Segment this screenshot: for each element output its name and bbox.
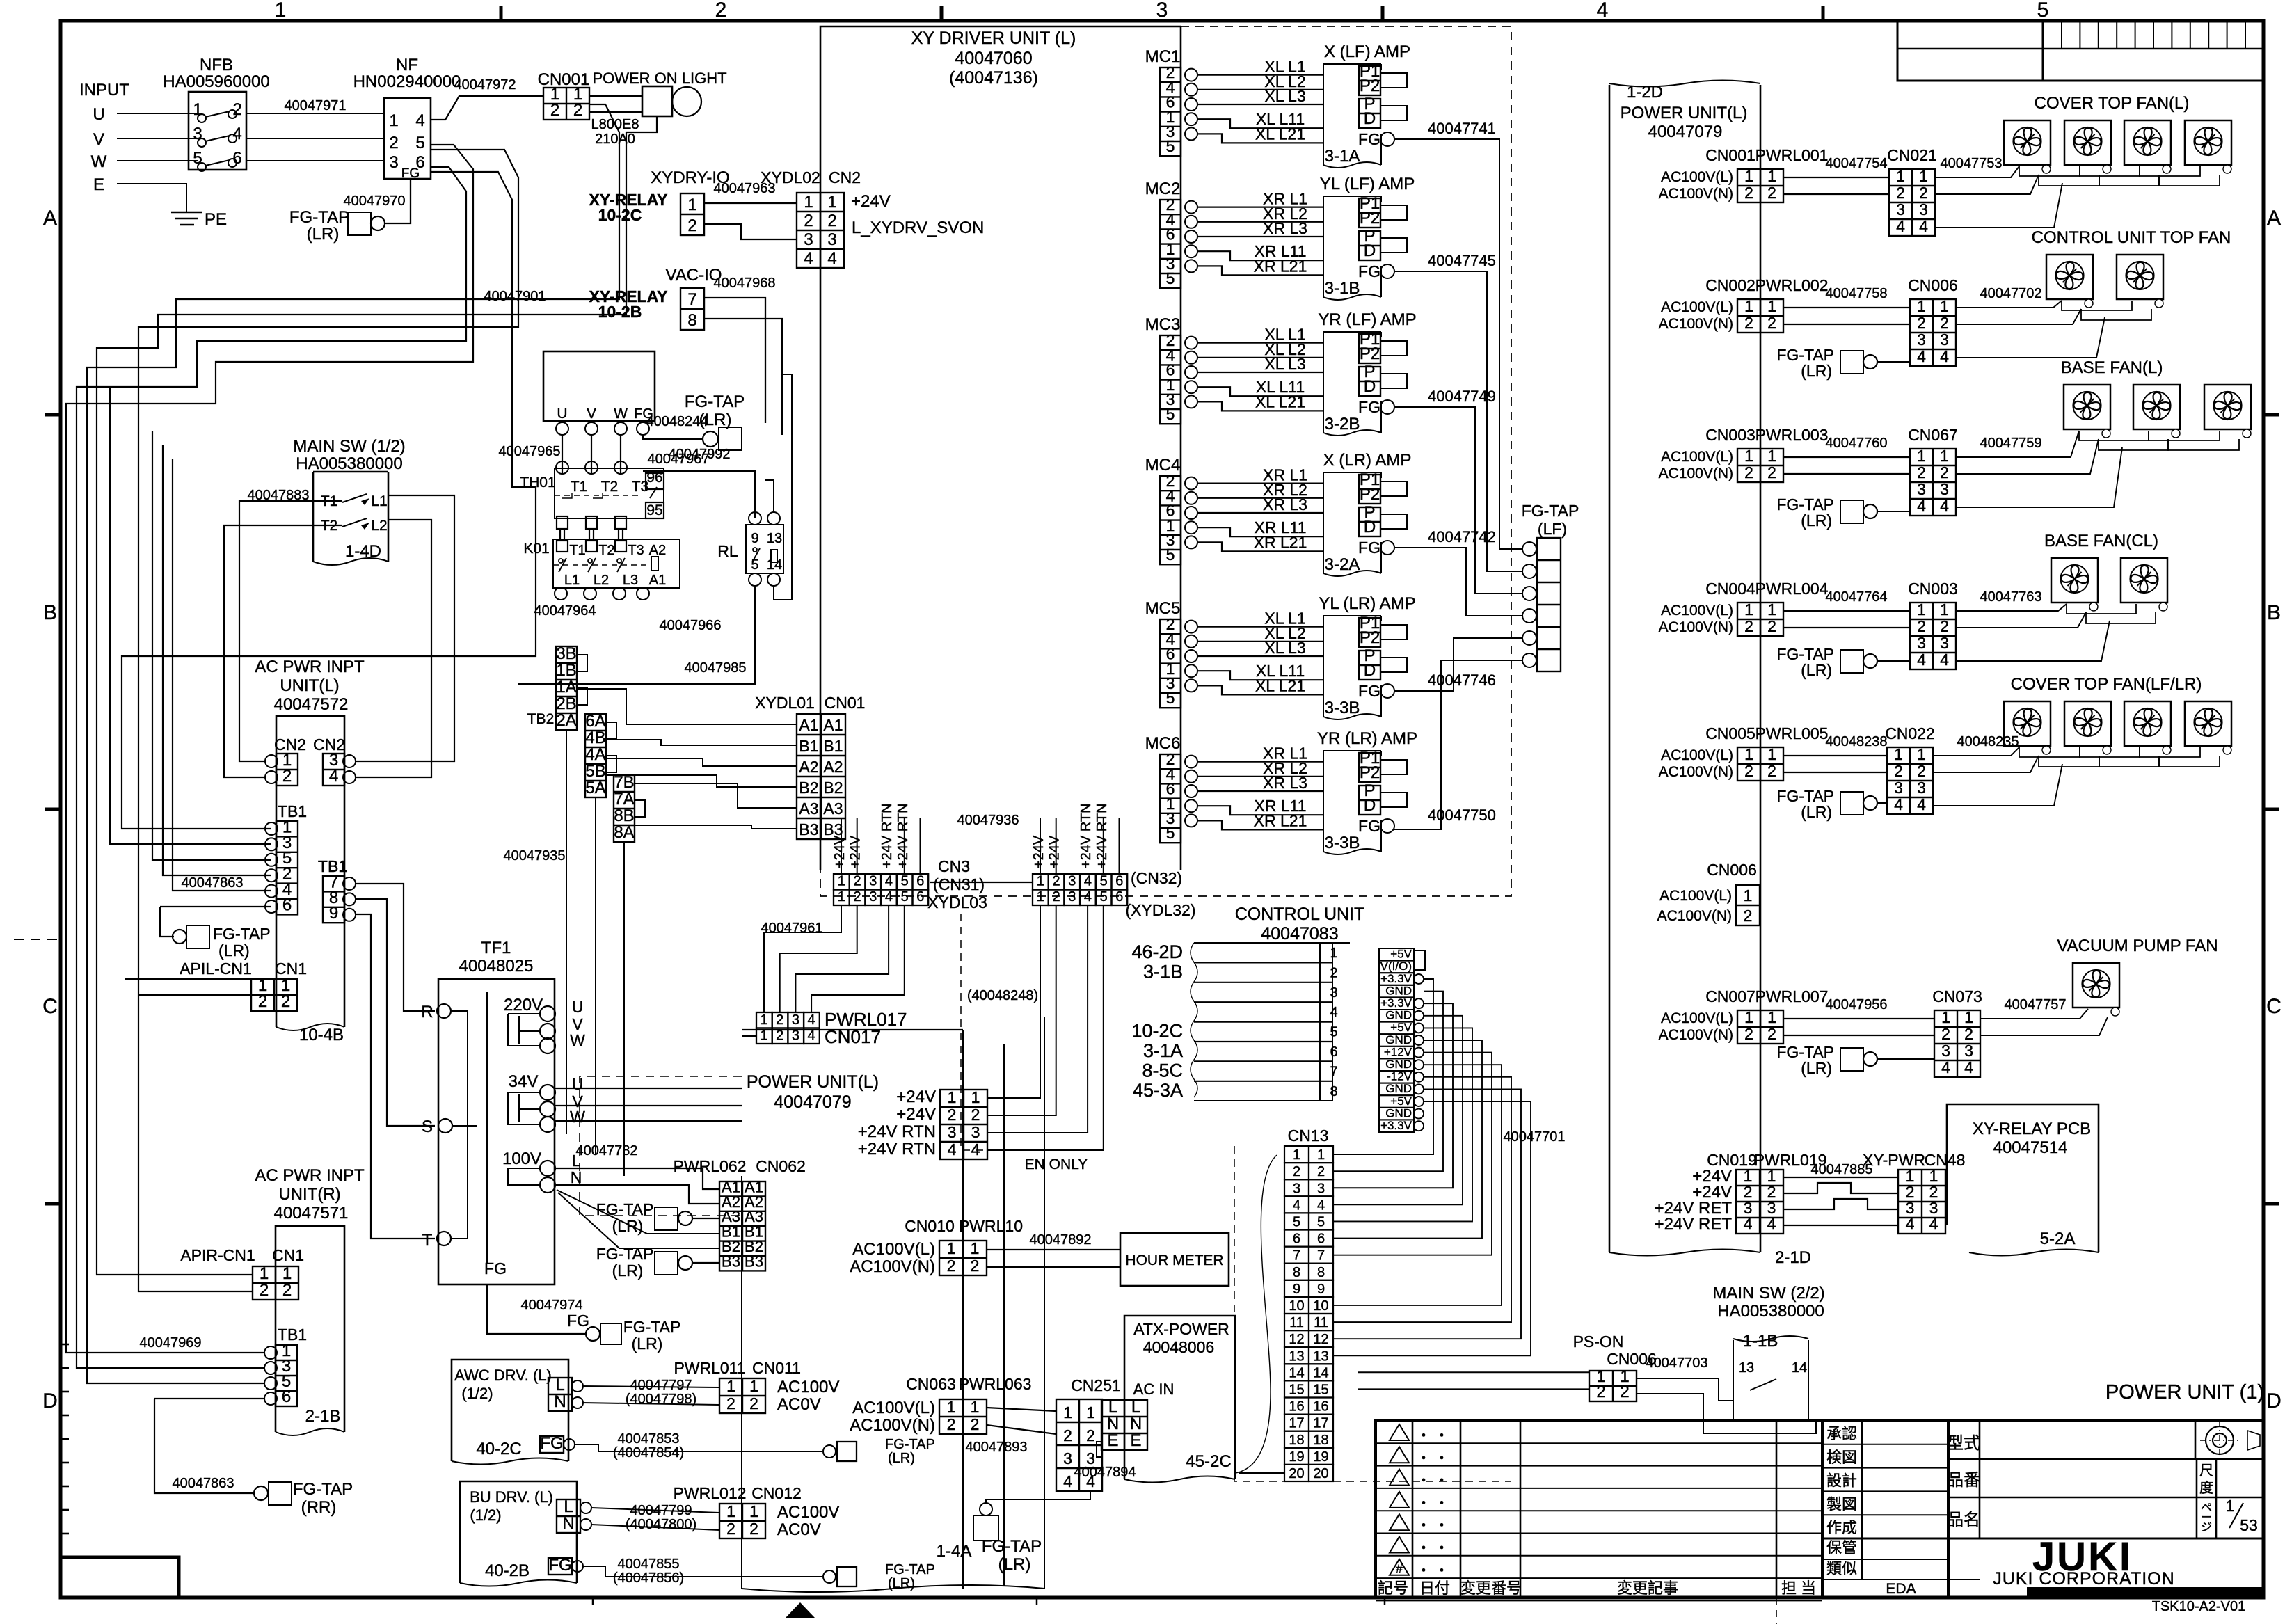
connector PWRL017/CN017 <box>756 1012 772 1028</box>
svg-text:6: 6 <box>1293 1232 1300 1247</box>
svg-text:1: 1 <box>1940 447 1949 465</box>
wire MC4 L1 <box>1197 482 1323 484</box>
svg-text:+12V: +12V <box>1384 1045 1412 1058</box>
svg-text:40047758: 40047758 <box>1826 286 1888 301</box>
wire fan feed 2 VACUUM PUMP FAN <box>1980 1017 2108 1035</box>
svg-text:10-2C: 10-2C <box>1131 1021 1183 1042</box>
wire CN019-3 jog <box>1783 1199 1898 1209</box>
svg-text:40047514: 40047514 <box>1993 1138 2068 1157</box>
fan COVER TOP FAN(L) #4 <box>2185 120 2231 165</box>
svg-text:C: C <box>2266 995 2282 1018</box>
wire XYDRY2 to XYDL02-3 <box>704 224 797 239</box>
wire NF4 to CN001-1 <box>431 96 543 120</box>
left border minor tick <box>61 1438 69 1440</box>
svg-text:承認: 承認 <box>1826 1425 1857 1442</box>
amp X (LF) AMP box <box>1323 64 1381 165</box>
svg-text:20: 20 <box>1313 1466 1328 1481</box>
wire RL to right <box>774 374 792 600</box>
connector PWRL012/CN012 <box>719 1504 765 1538</box>
left border minor tick <box>61 1391 69 1393</box>
wire TB2-5B to B2 <box>606 775 797 787</box>
left border minor tick <box>61 1367 69 1369</box>
svg-text:2: 2 <box>687 216 696 235</box>
svg-text:40047969: 40047969 <box>140 1335 202 1351</box>
svg-text:・: ・ <box>1435 1541 1449 1557</box>
connector CN022 <box>1887 747 1933 814</box>
svg-text:6A: 6A <box>585 712 605 731</box>
svg-text:40047079: 40047079 <box>774 1092 851 1112</box>
svg-text:UNIT(R): UNIT(R) <box>278 1185 340 1204</box>
svg-text:5: 5 <box>1166 824 1175 842</box>
wire fan feed 2 BASE FAN(L) <box>1956 439 2099 474</box>
fan COVER TOP FAN(LF/LR) #1 <box>2004 701 2051 746</box>
svg-text:2: 2 <box>1330 965 1337 980</box>
svg-text:MC1: MC1 <box>1145 47 1181 66</box>
fan daisy chain BASE FAN(L) <box>2079 431 2149 440</box>
svg-text:40047968: 40047968 <box>714 276 776 291</box>
svg-text:(LR): (LR) <box>888 1451 915 1466</box>
connector MC4 circles <box>1185 477 1197 490</box>
connector CN067 <box>1910 449 1956 516</box>
svg-text:PWRL001: PWRL001 <box>1755 146 1829 164</box>
svg-text:POWER UNIT(L): POWER UNIT(L) <box>747 1072 879 1092</box>
wire MC6 L21 <box>1197 820 1323 829</box>
svg-text:40047702: 40047702 <box>1980 286 2042 301</box>
svg-text:45-2C: 45-2C <box>1186 1452 1231 1471</box>
connector CN003 <box>1737 449 1783 482</box>
svg-text:19: 19 <box>1313 1449 1328 1465</box>
svg-text:(LF): (LF) <box>1538 520 1567 538</box>
svg-text:2: 2 <box>1896 184 1905 202</box>
wire MC6 L2 <box>1197 776 1323 777</box>
svg-text:V(I/O): V(I/O) <box>1380 960 1412 973</box>
svg-text:YR (LF) AMP: YR (LF) AMP <box>1318 310 1416 329</box>
svg-text:・: ・ <box>1435 1428 1449 1444</box>
zone tick top 4 <box>1822 6 1825 21</box>
wire 100V N to A2 <box>555 1185 719 1204</box>
svg-text:1: 1 <box>1917 297 1926 315</box>
revision strip box <box>1897 21 2263 81</box>
svg-text:L2: L2 <box>371 518 387 534</box>
svg-text:2A: 2A <box>556 711 576 730</box>
svg-text:1: 1 <box>1941 1008 1950 1026</box>
wire 34V W to unit <box>555 1120 742 1122</box>
wire CN001 row2 <box>1783 193 1889 195</box>
FG-TAP small 012 <box>837 1567 857 1586</box>
svg-text:FG-TAP: FG-TAP <box>596 1200 654 1218</box>
wire fgtap link VACUUM PUMP FAN <box>1877 1058 1934 1060</box>
svg-text:40047853: 40047853 <box>618 1431 680 1447</box>
svg-text:1: 1 <box>971 1088 980 1106</box>
svg-text:40047572: 40047572 <box>274 695 349 714</box>
wire CN063-CN251 2 <box>987 1425 1056 1434</box>
svg-text:3: 3 <box>1317 1181 1325 1196</box>
svg-text:13: 13 <box>767 531 782 546</box>
wire TB1-7 to TF R <box>356 884 435 1011</box>
svg-text:4: 4 <box>1917 795 1926 813</box>
svg-text:2: 2 <box>726 1394 735 1412</box>
wire TB2-2A down <box>566 730 567 1134</box>
MAIN SW 1-1B torn box <box>1733 1340 1808 1419</box>
svg-text:9: 9 <box>1317 1282 1325 1297</box>
FG-TAP square BASE FAN(L) <box>1840 500 1863 523</box>
svg-text:・: ・ <box>1417 1496 1431 1511</box>
svg-text:2: 2 <box>1964 1025 1973 1043</box>
wires into CN3/CN32 from driver unit <box>841 818 842 874</box>
svg-text:GND: GND <box>1385 1009 1412 1022</box>
FG-TAP LR atx square <box>973 1515 998 1541</box>
svg-text:1: 1 <box>1940 297 1949 315</box>
svg-text:1: 1 <box>2226 1497 2235 1515</box>
wire CN012-2 <box>591 1525 719 1530</box>
svg-text:40047750: 40047750 <box>1428 806 1496 824</box>
svg-text:U: U <box>93 105 104 124</box>
svg-text:2: 2 <box>1744 617 1753 635</box>
svg-text:N: N <box>562 1514 574 1533</box>
svg-text:4: 4 <box>1744 1215 1753 1233</box>
svg-text:AC100V(L): AC100V(L) <box>852 1240 935 1259</box>
TF1 winding core <box>486 992 488 1263</box>
wire MC5 L2 <box>1197 641 1323 642</box>
wire MC4 L11 <box>1197 527 1323 536</box>
svg-text:P2: P2 <box>1360 77 1380 95</box>
svg-text:4: 4 <box>1330 1005 1337 1020</box>
svg-text:3: 3 <box>389 153 398 172</box>
wire CN019-2 jog <box>1783 1183 1898 1193</box>
connector CN32/XYDL32 table <box>1033 874 1049 890</box>
fan COVER TOP FAN(L) #3 <box>2124 120 2171 165</box>
svg-text:(LR): (LR) <box>1801 803 1832 821</box>
amp YR (LR) AMP stub PD <box>1380 793 1407 807</box>
svg-text:MC2: MC2 <box>1145 180 1181 198</box>
svg-text:W: W <box>570 1031 585 1049</box>
TB2 jumper A1 <box>577 655 587 671</box>
svg-text:CN251: CN251 <box>1071 1376 1121 1394</box>
svg-text:40047764: 40047764 <box>1826 589 1888 605</box>
svg-text:2: 2 <box>1767 184 1776 202</box>
connector MC2 <box>1160 200 1181 288</box>
svg-text:PS-ON: PS-ON <box>1573 1332 1624 1351</box>
wire CN13-15b <box>1358 1388 1589 1390</box>
svg-text:2: 2 <box>1744 907 1753 925</box>
svg-text:B1: B1 <box>823 737 843 755</box>
svg-text:40047753: 40047753 <box>1941 156 2003 171</box>
svg-text:CN062: CN062 <box>756 1157 806 1175</box>
K01 box <box>553 539 680 588</box>
fan COVER TOP FAN(LF/LR) #3 <box>2124 701 2171 746</box>
svg-text:40047754: 40047754 <box>1826 156 1888 171</box>
svg-text:18: 18 <box>1289 1433 1304 1448</box>
svg-text:FG-TAP: FG-TAP <box>623 1318 681 1336</box>
connector MC2 circles <box>1185 201 1197 214</box>
svg-text:担 当: 担 当 <box>1781 1579 1816 1597</box>
BU DRV box <box>460 1481 577 1583</box>
svg-text:(LR): (LR) <box>1801 511 1832 530</box>
svg-text:40047763: 40047763 <box>1980 589 2042 605</box>
svg-text:9: 9 <box>1293 1282 1300 1297</box>
svg-text:6: 6 <box>282 895 292 914</box>
third angle projection symbol <box>2206 1426 2234 1454</box>
svg-text:4: 4 <box>804 249 813 268</box>
wire TB2-4B to B1 <box>606 740 797 745</box>
svg-text:8: 8 <box>1317 1265 1325 1280</box>
svg-text:XYDL02: XYDL02 <box>761 168 820 186</box>
svg-text:5: 5 <box>1166 405 1175 423</box>
svg-text:A2: A2 <box>649 543 666 558</box>
approval right divider <box>1947 1421 1950 1598</box>
svg-text:・: ・ <box>1435 1563 1449 1579</box>
amp YR (LR) AMP stub P1P2 <box>1380 760 1407 774</box>
svg-text:FG-TAP: FG-TAP <box>885 1437 935 1452</box>
wire FG MC4 to tap <box>1394 548 1522 616</box>
wire input V to NFB <box>117 138 198 139</box>
wire CN004 row1 <box>1783 610 1910 612</box>
svg-text:4: 4 <box>1896 217 1905 235</box>
svg-text:2: 2 <box>1744 463 1753 481</box>
connector CN002 <box>1737 299 1783 333</box>
CONTROL UNIT voltage pin cells <box>1379 948 1414 961</box>
svg-text:1: 1 <box>948 1088 957 1106</box>
svg-text:CN010: CN010 <box>905 1217 955 1235</box>
svg-text:10-2C: 10-2C <box>598 206 642 224</box>
svg-text:2: 2 <box>260 1281 269 1300</box>
svg-text:AC100V(N): AC100V(N) <box>1657 908 1732 924</box>
wire CN019-1 <box>1783 1177 1898 1178</box>
svg-text:(CN31): (CN31) <box>933 875 985 893</box>
svg-text:5: 5 <box>1166 137 1175 155</box>
svg-text:2: 2 <box>1293 1164 1300 1179</box>
svg-text:+24V: +24V <box>832 835 847 868</box>
CN13 dashed bottom <box>1333 1481 1511 1482</box>
wire CN32 pin down 2 <box>987 905 1056 1115</box>
fan CONTROL UNIT TOP FAN #1 <box>2046 255 2093 299</box>
wire CN001 row1 <box>1783 177 1889 178</box>
svg-text:4: 4 <box>415 111 424 130</box>
svg-text:INPUT: INPUT <box>79 81 129 99</box>
wire fgtap link COVER TOP FAN(LF/LR) <box>1877 802 1887 804</box>
fan daisy chain COVER TOP FAN(LF/LR) <box>2019 747 2080 757</box>
svg-text:CN2: CN2 <box>829 168 861 186</box>
svg-text:GND: GND <box>1385 1106 1412 1120</box>
svg-text:B: B <box>43 601 57 624</box>
svg-text:4: 4 <box>1917 497 1926 515</box>
connector ATX AC-IN <box>1101 1400 1147 1450</box>
svg-text:10: 10 <box>1313 1298 1328 1314</box>
svg-text:3: 3 <box>1917 480 1926 498</box>
svg-text:7: 7 <box>687 290 696 309</box>
svg-text:・: ・ <box>1435 1496 1449 1511</box>
amp X (LR) AMP stub PD <box>1380 514 1407 529</box>
svg-text:1: 1 <box>1037 874 1044 889</box>
K01 bottom circles <box>555 587 567 600</box>
svg-text:C: C <box>42 995 58 1018</box>
wire 40047967 to RL <box>643 471 755 518</box>
svg-text:4: 4 <box>1906 1215 1915 1233</box>
svg-text:PWRL007: PWRL007 <box>1755 987 1829 1005</box>
svg-text:40047745: 40047745 <box>1428 252 1496 269</box>
fan BASE FAN(CL) #1 <box>2051 558 2098 603</box>
AC PWR R TB1 <box>276 1345 297 1406</box>
svg-text:・: ・ <box>1435 1451 1449 1466</box>
connector PWRL011/CN011 <box>719 1378 765 1413</box>
svg-text:40047985: 40047985 <box>685 660 747 676</box>
wire bundle NF out 1 <box>66 145 473 1353</box>
revision table triangle symbols <box>1390 1424 1409 1440</box>
svg-text:・: ・ <box>1435 1518 1449 1534</box>
left border minor tick <box>61 1509 69 1511</box>
wire fan feed 4 COVER TOP FAN(L) <box>1935 183 2062 228</box>
bottom center dashed fold line <box>1776 1598 1777 1624</box>
svg-text:作成: 作成 <box>1826 1519 1857 1536</box>
svg-text:1-2D: 1-2D <box>1627 83 1663 102</box>
svg-text:POWER UNIT (1): POWER UNIT (1) <box>2105 1381 2264 1403</box>
svg-text:2: 2 <box>776 1012 783 1028</box>
svg-text:40047079: 40047079 <box>1648 122 1723 141</box>
svg-text:5-2A: 5-2A <box>2040 1229 2076 1248</box>
svg-text:XR L21: XR L21 <box>1254 533 1307 551</box>
svg-text:1: 1 <box>838 874 845 889</box>
svg-text:X (LF) AMP: X (LF) AMP <box>1324 42 1410 61</box>
svg-text:PWRL012: PWRL012 <box>674 1484 747 1502</box>
TB2 column C <box>614 775 635 842</box>
svg-text:7: 7 <box>1293 1248 1300 1264</box>
wire tapB3 <box>692 1262 719 1264</box>
svg-text:+24V RTN: +24V RTN <box>858 1140 936 1159</box>
svg-text:B1: B1 <box>799 737 818 755</box>
svg-text:100V: 100V <box>502 1149 541 1168</box>
svg-text:D: D <box>1364 661 1376 680</box>
amp YL (LF) AMP box <box>1323 196 1381 297</box>
TB2 column A <box>556 646 577 730</box>
svg-text:HOUR METER: HOUR METER <box>1125 1252 1223 1268</box>
svg-text:2: 2 <box>1744 184 1753 202</box>
svg-text:YL (LR) AMP: YL (LR) AMP <box>1319 594 1415 613</box>
wire fgtap 012 <box>583 1566 822 1577</box>
svg-text:4: 4 <box>885 874 893 889</box>
wire NFB2 to NF1 <box>246 113 384 114</box>
svg-text:4: 4 <box>1767 1215 1776 1233</box>
svg-text:3-3B: 3-3B <box>1325 699 1360 717</box>
svg-text:XY DRIVER UNIT (L): XY DRIVER UNIT (L) <box>911 29 1076 48</box>
bottom center triangle <box>786 1602 815 1618</box>
svg-text:FG: FG <box>540 1434 563 1453</box>
svg-text:45-3A: 45-3A <box>1133 1080 1183 1101</box>
wire CN010-2 to meter <box>987 1266 1120 1268</box>
connector MC6 <box>1160 754 1181 843</box>
wire fan feed 1 BASE FAN(CL) <box>1956 604 2067 611</box>
HOUR METER box <box>1120 1233 1229 1286</box>
svg-text:2: 2 <box>1917 762 1926 780</box>
zone tick top 1 <box>500 6 503 21</box>
fan BASE FAN(L) #2 <box>2133 385 2180 429</box>
wire CN007 row2 <box>1783 1035 1934 1036</box>
connector CN003 <box>1910 603 1956 669</box>
svg-text:+3.3V: +3.3V <box>1380 1119 1412 1132</box>
svg-text:B: B <box>2267 601 2281 624</box>
svg-text:3: 3 <box>1940 634 1949 652</box>
wire CN011-2 <box>582 1403 719 1405</box>
wire CN001 to lamp2 <box>589 111 642 113</box>
svg-text:6: 6 <box>1115 889 1123 905</box>
svg-text:6: 6 <box>1330 1044 1337 1060</box>
wire CN3 pin to PWRL017 4 <box>811 905 905 1012</box>
svg-text:L: L <box>555 1376 564 1394</box>
row tick right 1 <box>2263 808 2279 811</box>
svg-text:1: 1 <box>1330 946 1337 961</box>
wire TB2-7B to A3 <box>635 783 797 808</box>
wire CN32 pin down 3 <box>987 905 1088 1133</box>
svg-text:AC100V: AC100V <box>777 1378 839 1396</box>
svg-text:AC100V(L): AC100V(L) <box>1661 1010 1733 1026</box>
voltage +5V V(I/O) bracket <box>1414 950 1425 970</box>
svg-text:1-4A: 1-4A <box>937 1542 972 1561</box>
svg-text:+24V RTN: +24V RTN <box>1094 803 1110 868</box>
svg-text:+3.3V: +3.3V <box>1380 996 1412 1010</box>
connector CN251 <box>1056 1399 1102 1491</box>
svg-text:D: D <box>1364 377 1376 396</box>
svg-text:3: 3 <box>804 230 813 249</box>
svg-text:MC3: MC3 <box>1145 315 1181 334</box>
svg-text:AC100V(N): AC100V(N) <box>850 1257 935 1276</box>
svg-text:XL L21: XL L21 <box>1255 392 1305 411</box>
wire CN3 pin to PWRL017 3 <box>795 905 889 1012</box>
svg-text:+24V: +24V <box>896 1088 936 1106</box>
svg-text:PWRL10: PWRL10 <box>959 1217 1023 1235</box>
amp YL (LR) AMP stub PD <box>1380 658 1407 672</box>
svg-text:EN ONLY: EN ONLY <box>1025 1156 1088 1172</box>
svg-text:XY-RELAY PCB: XY-RELAY PCB <box>1973 1120 2091 1138</box>
row tick right 0 <box>2263 413 2279 417</box>
svg-text:34V: 34V <box>509 1072 539 1091</box>
wire MC1 L3 <box>1197 104 1323 105</box>
svg-text:#: # <box>1396 1562 1403 1575</box>
amp X (LF) AMP stub PD <box>1380 106 1407 120</box>
svg-text:16: 16 <box>1313 1399 1328 1415</box>
svg-text:1: 1 <box>1063 1403 1072 1422</box>
bottom border tick b <box>1036 1598 1038 1605</box>
svg-text:+24V RTN: +24V RTN <box>879 803 895 868</box>
wire MC6 L11 <box>1197 806 1323 815</box>
approval block left edge <box>1821 1421 1824 1598</box>
svg-text:2: 2 <box>1940 463 1949 481</box>
wire TB1-8 to TF S <box>356 899 435 1126</box>
svg-text:6: 6 <box>282 1387 291 1406</box>
svg-text:40047701: 40047701 <box>1504 1129 1566 1145</box>
svg-text:CN01: CN01 <box>825 694 866 712</box>
wire CN002 row1 <box>1783 307 1910 308</box>
wire fan feed 2 BASE FAN(CL) <box>1956 612 2086 628</box>
TB2 jumper B1 <box>606 722 616 739</box>
FG-TAP LF strip <box>1537 538 1561 671</box>
svg-text:TF1: TF1 <box>481 939 511 957</box>
svg-text:A3: A3 <box>823 799 843 818</box>
amp YL (LF) AMP stub PD <box>1380 238 1407 253</box>
wire fan feed 2 COVER TOP FAN(LF/LR) <box>1933 756 2039 772</box>
svg-text:NF: NF <box>396 56 418 74</box>
svg-text:1: 1 <box>1917 447 1926 465</box>
wire MC1 L11 <box>1197 119 1323 128</box>
svg-text:CN007: CN007 <box>1705 987 1755 1005</box>
connector PS-ON CN006 <box>1589 1371 1637 1401</box>
svg-text:11: 11 <box>1314 1315 1328 1330</box>
svg-text:2: 2 <box>726 1520 735 1538</box>
amp YL (LR) AMP stub P1P2 <box>1380 625 1407 639</box>
svg-text:2: 2 <box>281 992 290 1011</box>
POWER UNIT(L) center right edge <box>1044 1017 1045 1589</box>
svg-text:ジ: ジ <box>2201 1522 2212 1534</box>
PE ground symbol <box>171 212 202 213</box>
svg-text:U: U <box>572 998 584 1016</box>
